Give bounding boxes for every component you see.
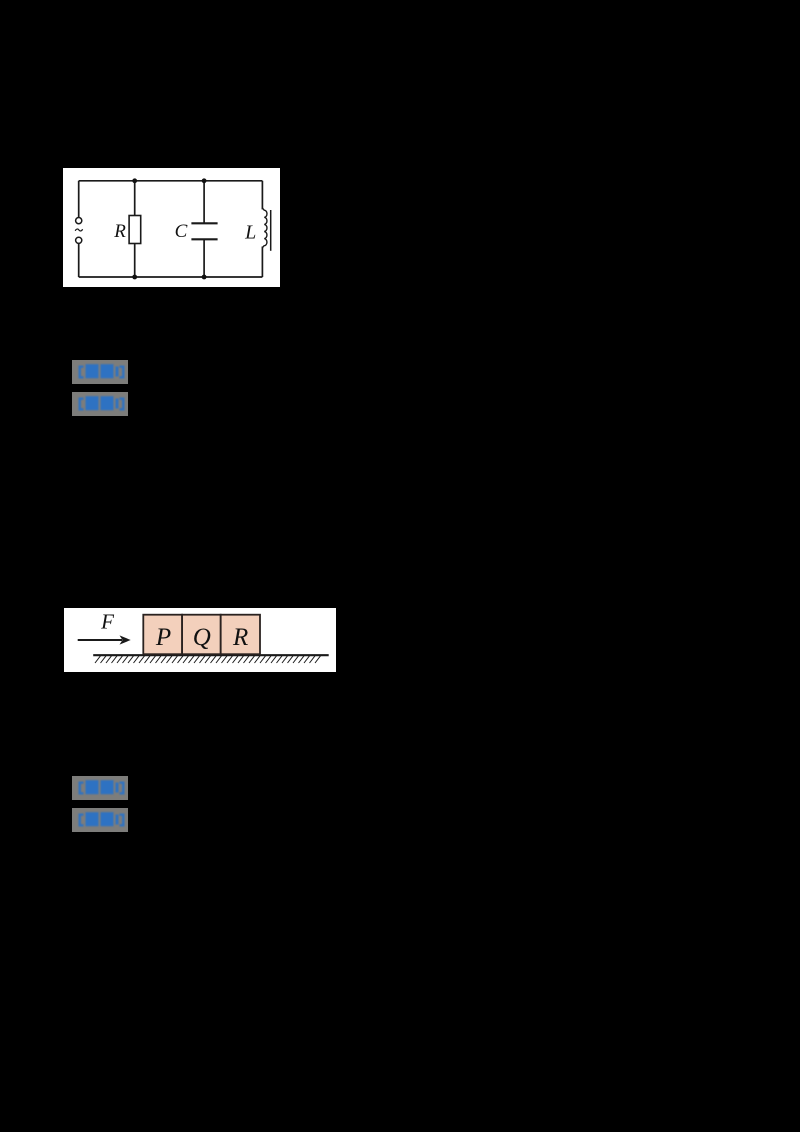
junction node bottom-R xyxy=(132,275,137,280)
svg-text:R: R xyxy=(232,624,248,651)
force arrow F head xyxy=(120,635,131,644)
capacitor C branch wire lower xyxy=(203,239,205,277)
capacitor C bottom plate xyxy=(191,238,217,240)
capacitor C top plate xyxy=(191,222,217,224)
svg-text:L: L xyxy=(244,222,256,244)
resistor R branch wire lower xyxy=(134,244,136,278)
answer button 1 xyxy=(72,360,128,384)
inductor L coil xyxy=(262,208,267,248)
inductor core bar xyxy=(270,210,272,251)
svg-text:R: R xyxy=(113,221,126,242)
svg-text:Q: Q xyxy=(193,624,211,651)
svg-text:P: P xyxy=(155,624,171,651)
analysis button 2 xyxy=(72,808,128,832)
ac source terminal bottom xyxy=(76,237,82,243)
force arrow F line xyxy=(78,639,122,641)
wire top xyxy=(79,180,263,182)
resistor R branch wire upper xyxy=(134,181,136,216)
ground line xyxy=(93,654,329,656)
analysis button 1 xyxy=(72,392,128,416)
block R xyxy=(221,615,260,655)
wire bottom xyxy=(79,276,263,278)
wire right lower xyxy=(261,247,263,278)
junction node bottom-C xyxy=(202,275,207,280)
blocks figure panel xyxy=(64,608,336,672)
ac source terminal top xyxy=(76,218,82,224)
block Q xyxy=(182,615,221,655)
svg-text:C: C xyxy=(175,221,188,242)
ac source tilde xyxy=(75,229,82,231)
circuit figure panel xyxy=(63,168,280,287)
wire left upper xyxy=(78,181,80,218)
answer button 2 xyxy=(72,776,128,800)
wire right upper xyxy=(261,181,263,210)
svg-text:F: F xyxy=(100,610,114,634)
junction node top-R xyxy=(132,178,137,183)
resistor R body xyxy=(129,216,141,244)
wire left lower xyxy=(78,244,80,278)
junction node top-C xyxy=(202,178,207,183)
ground hatching xyxy=(95,655,321,663)
block P xyxy=(143,615,182,655)
capacitor C branch wire upper xyxy=(203,181,205,224)
